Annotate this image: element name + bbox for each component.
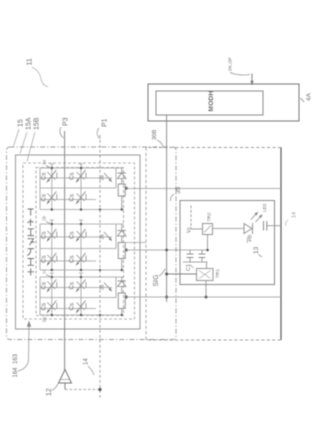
node G2 tap xyxy=(125,249,128,252)
wire SIG vertical (from MODH box down) xyxy=(166,115,168,302)
svg-text:14: 14 xyxy=(84,358,90,365)
wire G1 mid rail xyxy=(40,187,116,189)
wire G1 column c xyxy=(115,168,117,188)
label transistor-array column (vertical Japanese text) xyxy=(27,209,34,275)
wire G2 output b (to capacitors) xyxy=(125,249,207,251)
svg-text:Cs: Cs xyxy=(69,172,76,180)
diode D1 cathode bar xyxy=(118,172,127,174)
wire G2 column b xyxy=(80,224,82,270)
capacitor C2 leads xyxy=(201,250,203,254)
node G2 stub a xyxy=(50,220,54,224)
svg-text:13: 13 xyxy=(253,246,260,254)
node G1 e xyxy=(99,208,101,210)
node G2 f xyxy=(121,269,123,271)
svg-text:3s: 3s xyxy=(100,284,106,290)
node G2 b xyxy=(80,223,83,226)
svg-text:DK,OP: DK,OP xyxy=(228,57,233,71)
transistor Q1 (group G1 row1 col1) xyxy=(46,170,57,184)
node G3 tap xyxy=(125,296,128,299)
wire G2 bottom rail xyxy=(40,269,124,271)
node G2 a xyxy=(51,223,54,226)
leader squiggle 11 xyxy=(32,67,48,87)
wire amp to P1 (dashed) xyxy=(65,389,100,391)
node G2 stub b xyxy=(79,220,83,224)
wire TR2 down to capacitor rail xyxy=(207,235,209,251)
wire G2 column a xyxy=(51,224,53,270)
node G3 c xyxy=(51,314,54,317)
leader squiggle 12 xyxy=(52,384,58,391)
node G2 c xyxy=(51,269,54,272)
op-amp 12 (buffer amplifier, pointing up) xyxy=(59,370,72,384)
svg-text:4A: 4A xyxy=(306,92,313,101)
transistor TR1 (output block) xyxy=(197,269,214,281)
wire G2 mid rail xyxy=(40,248,116,250)
transistor Q12 (group G3 row2 col2) xyxy=(75,301,86,315)
wire TR1 bottom xyxy=(205,281,207,298)
wire arrow into box 4A xyxy=(251,74,253,82)
arrowhead into box 4A xyxy=(250,81,253,86)
wire P1 bus (dashed vertical) xyxy=(99,135,101,400)
node G3 b xyxy=(80,276,83,279)
leader tick 1b xyxy=(46,222,51,225)
svg-text:Cs: Cs xyxy=(41,172,48,180)
wire G3 left feed xyxy=(39,277,41,315)
leader squiggle 14b xyxy=(88,366,94,375)
transistor Q7 (group G2 row2 col1) xyxy=(46,253,57,267)
LED arrow 1 xyxy=(251,214,257,220)
svg-text:1a: 1a xyxy=(42,159,47,165)
svg-text:P1: P1 xyxy=(102,118,109,127)
transistor Q9 (group G3 row1 col1) xyxy=(46,280,57,294)
wire G2 output a xyxy=(126,242,146,244)
transistor Q3 (group G1 row2 col1) xyxy=(46,192,57,206)
capacitor C1 leads xyxy=(189,250,191,254)
node G1 d xyxy=(80,208,83,211)
node G1 tap xyxy=(125,187,128,190)
diode D3 xyxy=(118,281,127,287)
svg-text:PD: PD xyxy=(248,234,254,241)
box transistor-array (inner dashed cell box) xyxy=(36,168,124,316)
wire G1 column b xyxy=(80,168,82,210)
svg-text:Cs: Cs xyxy=(41,255,48,263)
wire Vcc to TR2 xyxy=(191,228,203,230)
wire right rail (dark right edge of box 30B) xyxy=(280,148,282,341)
capacitor-bars after LED xyxy=(263,221,265,231)
node G3 a xyxy=(51,276,54,279)
transistor mini G2 (small symbol) xyxy=(104,232,110,239)
svg-text:14: 14 xyxy=(292,212,298,218)
leader squiggle 14 xyxy=(286,220,288,226)
box 15A (outer solid box of transistor array) xyxy=(16,155,141,329)
leader squiggle P1 xyxy=(97,128,100,139)
capacitor C2 plates xyxy=(199,253,206,255)
wire G2 row1 xyxy=(40,236,112,238)
wire G2 top rail xyxy=(40,223,124,225)
node G2 d xyxy=(80,269,83,272)
leader tick 1c xyxy=(46,275,51,278)
leader squiggle PD xyxy=(247,235,249,243)
transistor Q11 (group G3 row2 col1) xyxy=(46,301,57,315)
leader squiggle 30B xyxy=(157,140,164,148)
svg-text:164: 164 xyxy=(13,367,19,378)
diode D2 xyxy=(118,231,127,237)
wire G3 column b xyxy=(80,277,82,315)
wire TR2 to LED xyxy=(213,228,245,230)
wire capacitor bottom rail xyxy=(183,261,208,263)
leader arrow 163/164 xyxy=(18,326,30,371)
transistor mini G1 (small symbol) xyxy=(104,173,110,180)
node G1 f xyxy=(121,208,123,210)
wire G3 row2 xyxy=(40,308,96,310)
svg-text:15B: 15B xyxy=(34,117,41,130)
capacitor C1 plates xyxy=(187,253,194,255)
svg-text:TR2: TR2 xyxy=(207,212,213,221)
wire amp output xyxy=(64,383,66,390)
svg-text:15A: 15A xyxy=(26,117,33,130)
wire G1 chain bottom xyxy=(121,196,123,210)
wire LED output to rail xyxy=(267,225,281,227)
wire P3 bus (solid vertical) xyxy=(64,131,66,370)
transistor Q5 (group G2 row1 col1) xyxy=(46,229,57,243)
svg-text:Cs: Cs xyxy=(69,255,76,263)
wire G3 column a xyxy=(51,277,53,315)
leader squiggle P3 xyxy=(60,127,64,138)
leader tick 15B xyxy=(27,132,35,162)
wire G1 row1 xyxy=(40,177,112,179)
svg-text:Cs: Cs xyxy=(69,194,76,202)
node G2 e xyxy=(99,269,101,271)
wire G2 row2 xyxy=(40,260,96,262)
leader tick 15 xyxy=(14,129,20,146)
leader squiggle 35 xyxy=(170,194,174,201)
svg-text:15: 15 xyxy=(18,119,25,127)
node SIG corner xyxy=(165,273,168,276)
svg-text:1c: 1c xyxy=(42,268,47,274)
wire G1 chain top xyxy=(121,168,123,173)
transistor TR2 (driver block) xyxy=(203,224,213,235)
svg-text:P3: P3 xyxy=(63,117,70,126)
wire G2 chain bottom xyxy=(121,259,123,271)
svg-text:Cs: Cs xyxy=(69,303,76,311)
transistor Q2 (group G1 row1 col2) xyxy=(75,170,86,184)
node G3 f xyxy=(121,314,123,316)
node G3 stub b xyxy=(79,273,83,277)
node G1 stub b xyxy=(79,164,83,168)
transistor Q8 (group G2 row2 col2) xyxy=(75,253,86,267)
svg-text:Cs: Cs xyxy=(41,282,48,290)
resistor R2 xyxy=(118,243,125,259)
svg-text:Cs: Cs xyxy=(41,194,48,202)
svg-text:Cs: Cs xyxy=(41,231,48,239)
svg-text:3s: 3s xyxy=(100,175,106,181)
dash-dot enclosure 15 (outermost box around whole assembly) xyxy=(7,147,177,340)
wire G3 chain bottom xyxy=(121,309,123,316)
diode LED (photocoupler emitter) xyxy=(244,224,252,234)
LED arrow 2 xyxy=(256,216,262,222)
wire G2 column c xyxy=(115,224,117,249)
wire SIG horizontal (into receiver box) xyxy=(167,273,197,275)
wire G3 output line xyxy=(125,296,281,298)
svg-text:Cs: Cs xyxy=(41,303,48,311)
svg-text:bs: bs xyxy=(42,316,48,322)
svg-text:LE0: LE0 xyxy=(262,203,267,212)
wire cap rail to TR1 xyxy=(206,262,208,269)
svg-text:TR1: TR1 xyxy=(215,269,221,278)
wire G1 chain mid xyxy=(121,179,123,185)
wire G1 top rail xyxy=(40,167,124,169)
svg-text:3s: 3s xyxy=(100,234,106,240)
box 13 (receiver circuit box) xyxy=(180,201,275,285)
node G1 b xyxy=(80,167,83,170)
svg-text:30B: 30B xyxy=(152,130,158,140)
wire G3 chain top xyxy=(121,277,123,281)
wire G3 row1 xyxy=(40,287,112,289)
box MODH (inner box in 4A) xyxy=(156,91,263,115)
transistor mini G3 (small symbol) xyxy=(104,283,110,290)
diode D2 cathode bar xyxy=(118,230,127,232)
leader tick for 4A xyxy=(301,98,305,102)
transistor Q4 (group G1 row2 col2) xyxy=(75,192,86,206)
svg-text:35: 35 xyxy=(175,186,182,194)
node G3 e xyxy=(99,314,101,316)
node G1 a xyxy=(51,167,54,170)
wire G1 bottom rail xyxy=(40,209,124,211)
node amp-P1 junction xyxy=(98,388,101,391)
node G1 stub a xyxy=(50,164,54,168)
resistor R1 xyxy=(118,184,125,196)
dashed box 30B (right-side receiver enclosure, right edge is dark rail) xyxy=(146,148,281,341)
wire G1 column a xyxy=(51,168,53,210)
leader tick 1a xyxy=(46,166,51,169)
svg-text:SIG: SIG xyxy=(153,274,160,286)
svg-text:C1: C1 xyxy=(186,264,192,271)
transistor Q10 (group G3 row1 col2) xyxy=(75,280,86,294)
svg-text:163: 163 xyxy=(13,353,19,364)
node G3 d xyxy=(80,314,83,317)
svg-text:MODH: MODH xyxy=(208,91,215,112)
svg-text:11: 11 xyxy=(27,58,34,65)
node G3-TR1 junction xyxy=(205,296,208,299)
svg-text:Cs: Cs xyxy=(69,231,76,239)
node G1 c xyxy=(51,208,54,211)
wire Vcc stub xyxy=(190,206,192,230)
node G3 stub a xyxy=(50,273,54,277)
leader tick 15A xyxy=(20,132,27,154)
wire G1 left feed xyxy=(39,168,41,210)
svg-text:1b: 1b xyxy=(42,215,47,221)
transistor Q6 (group G2 row1 col2) xyxy=(75,229,86,243)
box 4A (top controller box) xyxy=(148,84,299,121)
svg-text:12: 12 xyxy=(46,388,53,396)
wire G3 chain mid xyxy=(121,287,123,294)
svg-text:Cs: Cs xyxy=(69,282,76,290)
wire G2 chain top xyxy=(121,224,123,231)
diode D1 xyxy=(118,173,127,179)
wire G3 bottom rail xyxy=(40,314,124,316)
wire G2 left feed xyxy=(39,224,41,270)
leader squiggle DK,OP xyxy=(230,73,250,75)
wire G3 column c xyxy=(115,277,117,298)
wire G3 top rail xyxy=(40,276,124,278)
diode D3 cathode bar xyxy=(118,280,127,282)
wire G1 output line xyxy=(125,188,281,190)
box 15B (inner dashed box of transistor array) xyxy=(23,163,135,319)
resistor R3 xyxy=(118,293,125,309)
wire G3 mid rail xyxy=(40,297,116,299)
wire G1 row2 xyxy=(40,199,96,201)
leader tick C1 xyxy=(191,265,194,268)
svg-text:Vc: Vc xyxy=(187,227,193,233)
leader tick 13 xyxy=(259,255,263,258)
node TR2-cap junction xyxy=(206,249,209,252)
leader squiggle SIG xyxy=(159,269,165,277)
wire G2 chain mid xyxy=(121,236,123,243)
